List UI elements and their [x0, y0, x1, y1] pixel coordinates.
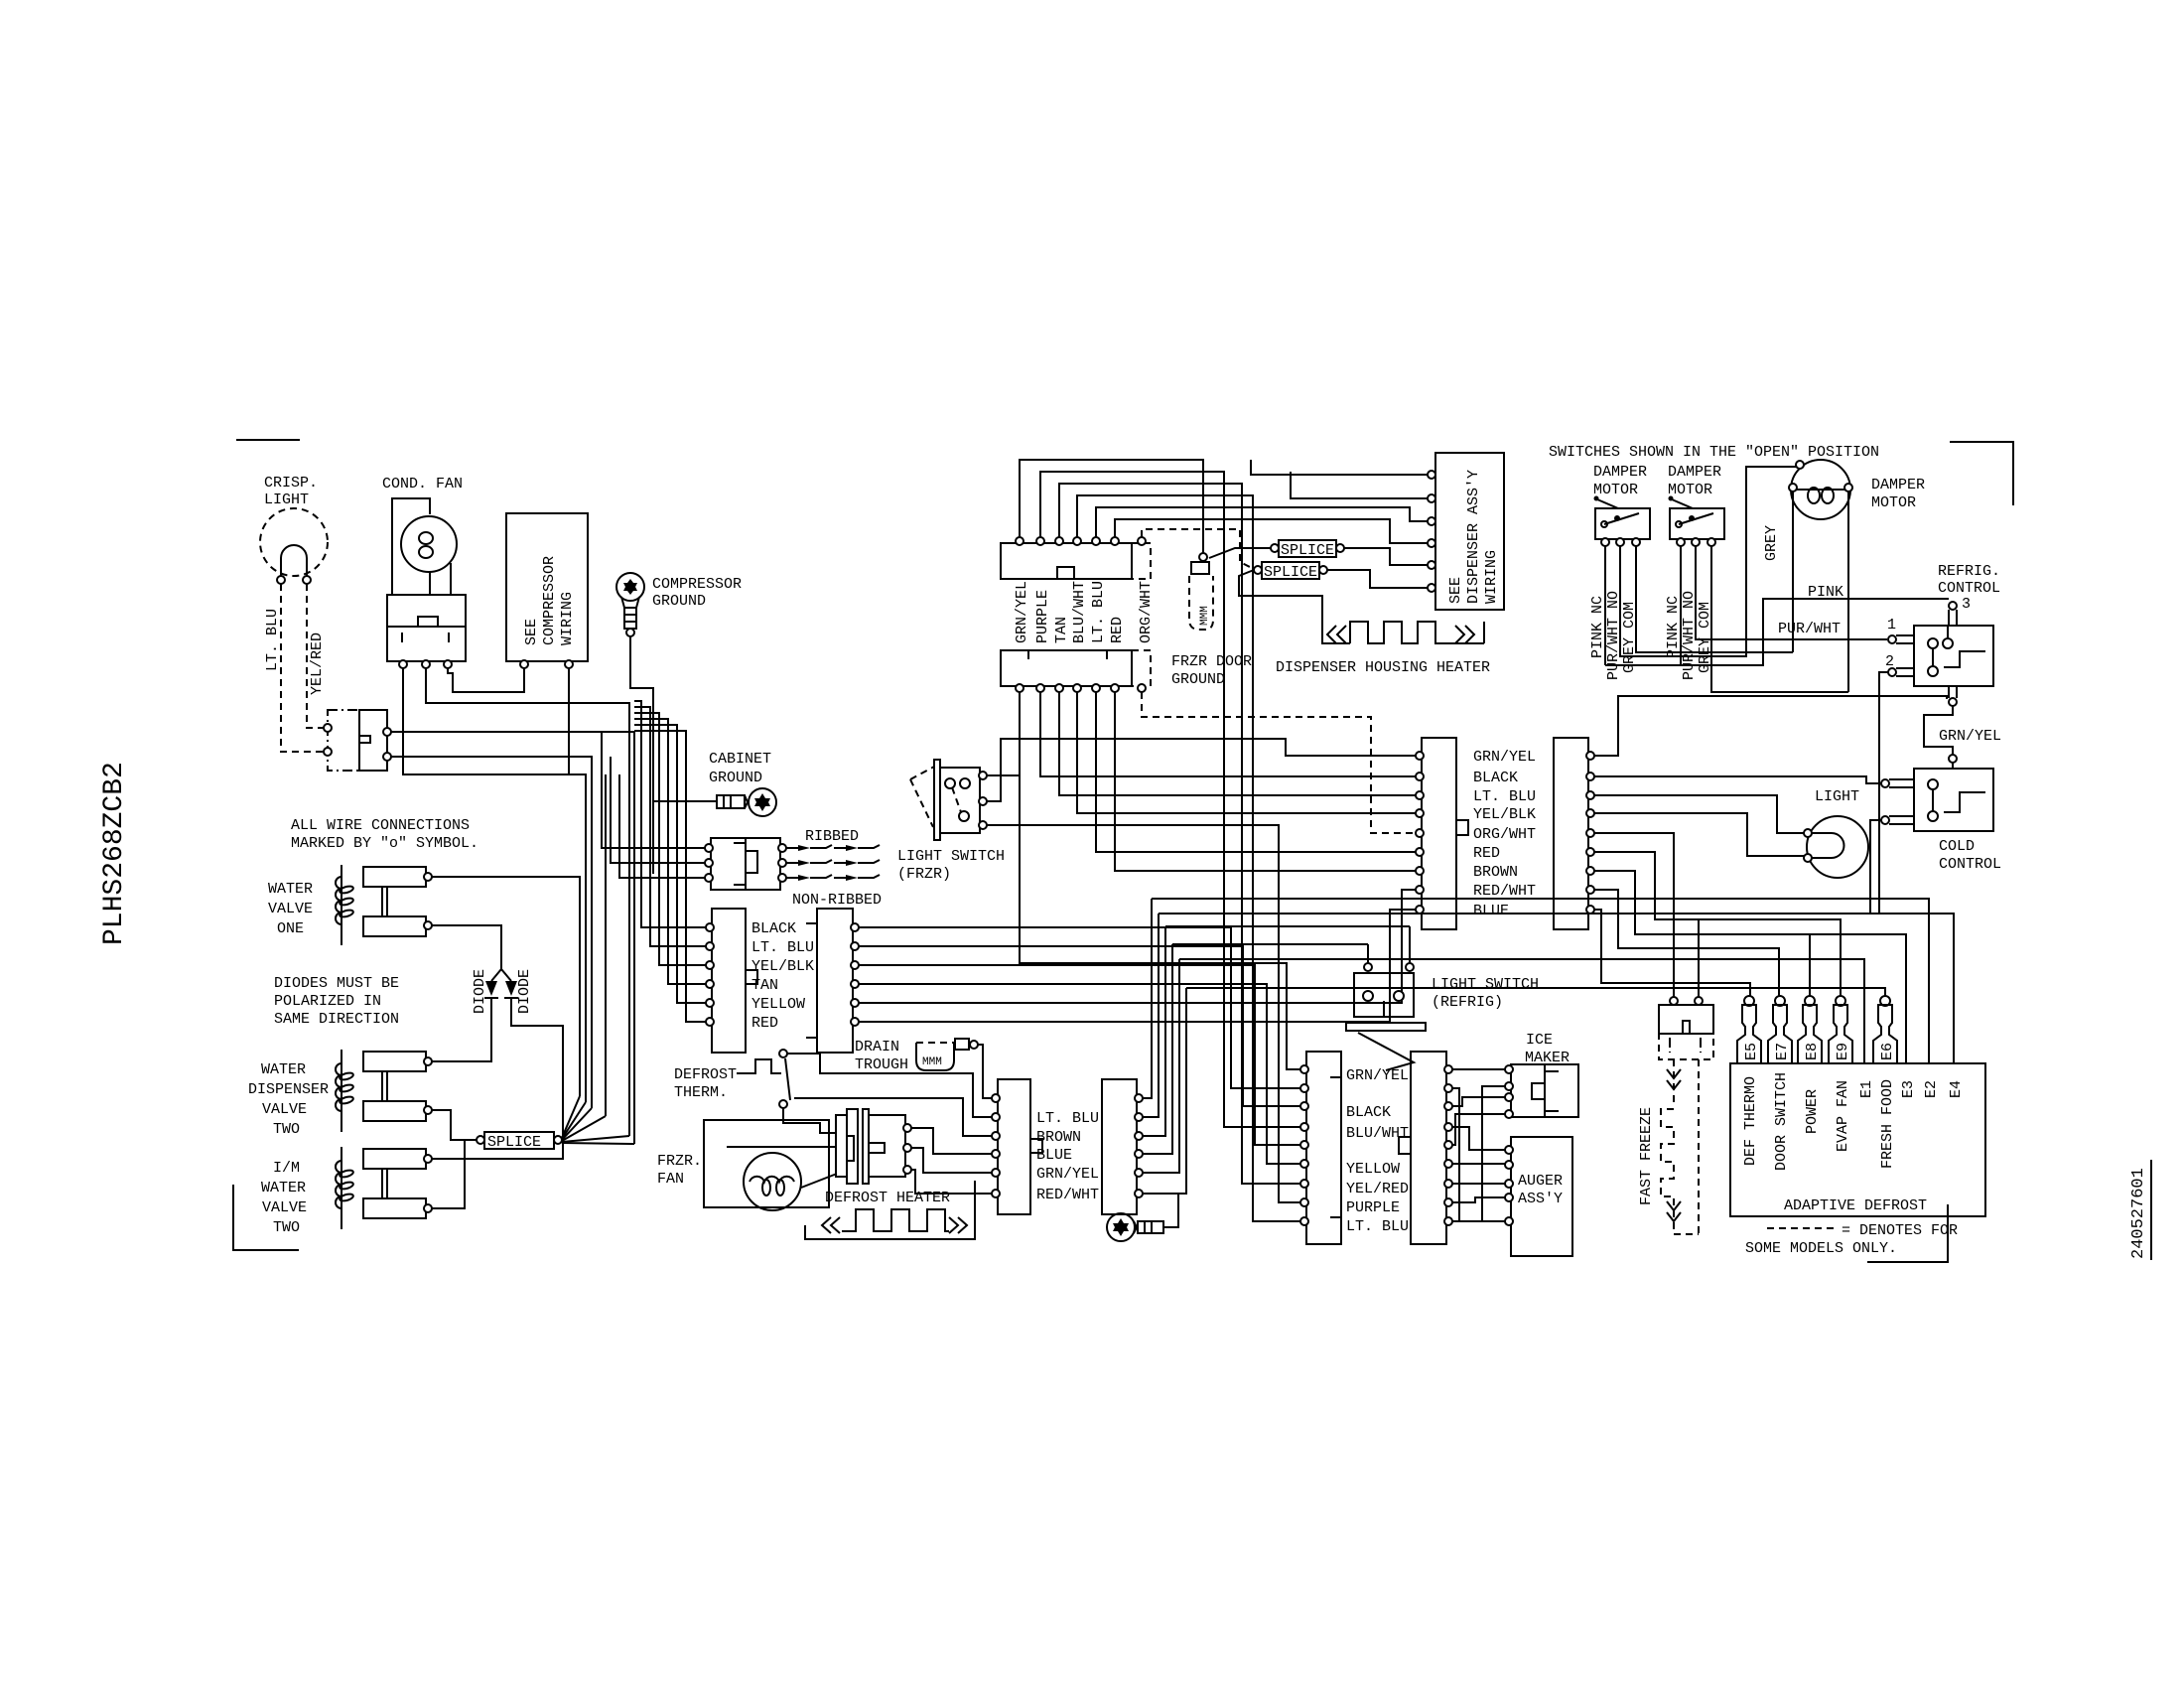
motor COND. FAN — [382, 476, 466, 661]
terminal motor left — [1789, 484, 1797, 492]
terminal valve3 bottom — [424, 1204, 432, 1212]
terminal C2-6 — [851, 1018, 859, 1026]
note ALL WIRE CONNECTIONS — [291, 817, 478, 852]
terminal splice2 left — [1254, 566, 1262, 574]
wire motor left grey drop — [1792, 492, 1794, 652]
terminal sw2 grey — [1707, 538, 1715, 546]
switch LIGHT SWITCH (FRZR) — [897, 760, 1005, 883]
svg-text:E8: E8 — [1804, 1043, 1821, 1060]
wire FU-5 riser to dispenser — [1096, 507, 1430, 537]
terminal IM-2 — [1505, 1082, 1513, 1090]
wire splice fan-in — [562, 1096, 634, 1144]
svg-text:DAMPER: DAMPER — [1871, 477, 1925, 493]
terminal H2-6 — [1586, 848, 1594, 856]
svg-text:RED: RED — [1473, 845, 1500, 862]
svg-text:E3: E3 — [1900, 1080, 1917, 1098]
connector D1 defrost left half — [998, 1079, 1042, 1214]
ground FRZR DOOR GROUND — [1171, 553, 1252, 688]
terminal IM-3 — [1505, 1093, 1513, 1101]
terminal LSF-1 — [979, 772, 987, 779]
svg-text:ALL WIRE CONNECTIONS: ALL WIRE CONNECTIONS — [291, 817, 470, 834]
svg-text:TWO: TWO — [273, 1121, 300, 1138]
svg-text:GROUND: GROUND — [709, 770, 762, 786]
svg-text:MMM: MMM — [922, 1056, 942, 1068]
wire H2-9 BLUE staircase to E5 — [1594, 910, 1750, 996]
svg-text:ORG/WHT: ORG/WHT — [1473, 826, 1536, 843]
svg-text:GRN/YEL: GRN/YEL — [1939, 728, 2001, 745]
svg-text:YEL/BLK: YEL/BLK — [751, 958, 814, 975]
terminal FU-3 — [1055, 537, 1063, 545]
terminal valve2 bottom — [424, 1106, 432, 1114]
svg-text:ORG/WHT: ORG/WHT — [1138, 581, 1155, 643]
wire G2-5 to IM-4 — [1452, 1114, 1505, 1145]
terminal FL-5 — [1092, 684, 1100, 692]
wire channel to E2 — [1152, 899, 1929, 1063]
svg-text:THERM.: THERM. — [674, 1084, 728, 1101]
wire FL-3 drop — [1059, 692, 1416, 795]
svg-text:YEL/BLK: YEL/BLK — [1473, 806, 1536, 823]
svg-text:DOOR SWITCH: DOOR SWITCH — [1773, 1072, 1790, 1171]
wire pigtail leads row3 — [786, 875, 880, 881]
node drawing number 240527601 — [2129, 1160, 2151, 1260]
terminal refrig 1 — [1887, 617, 1914, 643]
wire stub to ribbed L2 — [611, 757, 705, 863]
wire G2-2 to AUG-5 — [1452, 1088, 1505, 1221]
svg-text:LT. BLU: LT. BLU — [1473, 788, 1536, 805]
auger AUGER ASS'Y — [1511, 1137, 1572, 1256]
connector D2 defrost right half — [1102, 1079, 1137, 1214]
terminal G2-2 — [1444, 1084, 1452, 1092]
terminal FU-1 — [1016, 537, 1024, 545]
wire FU-1 riser to frzr door ground — [1020, 460, 1203, 553]
terminal cold 2 — [1881, 816, 1914, 824]
svg-text:DISPENSER HOUSING HEATER: DISPENSER HOUSING HEATER — [1276, 659, 1490, 676]
wire heater t1 to connector — [911, 1128, 992, 1154]
svg-text:MOTOR: MOTOR — [1593, 482, 1638, 498]
svg-text:BLUE: BLUE — [1473, 903, 1509, 919]
terminal G2-7 — [1444, 1180, 1452, 1188]
svg-text:YEL/RED: YEL/RED — [1346, 1181, 1409, 1197]
terminal valve3 top — [424, 1155, 432, 1163]
wire feeders into C1 — [634, 701, 706, 1022]
wire pigtail leads row1 — [786, 845, 880, 851]
svg-text:FRZR.: FRZR. — [657, 1153, 702, 1170]
svg-text:E9: E9 — [1835, 1043, 1851, 1060]
terminal cond fan 2 — [422, 660, 430, 668]
svg-text:WIRING: WIRING — [1483, 550, 1500, 604]
wire C2-1 to F BLACK — [859, 927, 1301, 1088]
wire channel to E1 — [1179, 959, 1864, 1063]
coil WATER VALVE ONE — [268, 865, 426, 945]
terminal D1-6 — [992, 1190, 1000, 1197]
terminal splice2 right — [1319, 566, 1327, 574]
svg-text:GREY: GREY — [1763, 525, 1780, 561]
terminal C1-5 — [706, 999, 714, 1007]
svg-text:GRN/YEL: GRN/YEL — [1346, 1067, 1409, 1084]
wire C2-2 to F BLU/WHT — [859, 946, 1301, 1106]
wire H2-7 BROWN staircase to E8/E3 — [1594, 871, 1906, 1063]
terminal C1-1 — [706, 923, 714, 931]
svg-text:BLU/WHT: BLU/WHT — [1071, 581, 1088, 643]
wire cond fan t1 down — [403, 668, 586, 1102]
svg-text:3: 3 — [1962, 596, 1971, 613]
connector H2 right half — [1554, 738, 1588, 929]
svg-text:YELLOW: YELLOW — [1346, 1161, 1400, 1178]
terminal G1-9 — [1300, 1217, 1308, 1225]
svg-text:COLD: COLD — [1939, 838, 1975, 855]
wire FF t2 riser — [1698, 919, 1700, 997]
wire FU-4 riser long drop — [1077, 495, 1301, 1221]
wire bundle extra — [605, 774, 607, 1116]
wire C2-5 to D RED/WHT — [859, 890, 1416, 1003]
wire FL-6 drop — [1115, 692, 1416, 871]
terminal AUG-2 — [1505, 1161, 1513, 1169]
svg-text:WIRING: WIRING — [559, 592, 576, 645]
label C wire colors — [751, 920, 814, 1032]
terminal FL-7 dashed — [1138, 684, 1146, 692]
svg-text:E4: E4 — [1948, 1080, 1965, 1098]
wire sw1 purwht to motor top — [1620, 467, 1796, 656]
control REFRIG. CONTROL — [1914, 563, 2000, 706]
terminal disp-6 — [1428, 584, 1435, 592]
terminal sw1 purwht — [1616, 538, 1624, 546]
svg-text:RED/WHT: RED/WHT — [1036, 1187, 1099, 1203]
svg-text:POLARIZED IN: POLARIZED IN — [274, 993, 381, 1010]
terminal G1-3 — [1300, 1102, 1308, 1110]
terminal LSR-1 — [1364, 963, 1372, 971]
svg-text:WATER: WATER — [261, 1180, 306, 1196]
blade E5 — [1737, 996, 1761, 1063]
terminal sw2 pink — [1677, 538, 1685, 546]
terminal D2-1 — [1135, 1094, 1143, 1102]
terminal valve1 bottom — [424, 921, 432, 929]
terminal cond fan 1 — [399, 660, 407, 668]
svg-text:CRISP.: CRISP. — [264, 475, 318, 492]
wire defrost therm top to connector — [787, 1054, 992, 1117]
terminal IM-4 — [1505, 1110, 1513, 1118]
svg-text:COMPRESSOR: COMPRESSOR — [652, 576, 742, 593]
svg-text:PLHS268ZCB2: PLHS268ZCB2 — [99, 762, 130, 945]
board ADAPTIVE DEFROST — [1730, 1063, 1985, 1216]
svg-text:DAMPER: DAMPER — [1593, 464, 1647, 481]
terminal compressor box 1 — [520, 660, 528, 668]
svg-text:FAST FREEZE: FAST FREEZE — [1638, 1107, 1655, 1205]
wire dispenser t1 branch — [1251, 460, 1430, 475]
svg-text:AUGER: AUGER — [1518, 1173, 1563, 1190]
terminal splice1 right — [1336, 544, 1344, 552]
terminal cond fan 3 — [444, 660, 452, 668]
ground evap fan ground lug — [1107, 1194, 1178, 1241]
wire FU-2 riser long drop — [1040, 472, 1301, 1127]
svg-text:LIGHT: LIGHT — [1815, 788, 1859, 805]
svg-text:FAN: FAN — [657, 1171, 684, 1188]
svg-text:SAME DIRECTION: SAME DIRECTION — [274, 1011, 399, 1028]
svg-text:LT. BLU: LT. BLU — [264, 609, 281, 671]
wire sw1 pink to PINK — [1604, 546, 1606, 665]
terminal valve2 top — [424, 1057, 432, 1065]
connector FRZR door lower half — [1001, 650, 1151, 686]
note DIODES MUST BE POLARIZED — [274, 975, 399, 1028]
wire G2-3 to IM-3 — [1452, 1097, 1505, 1106]
svg-text:SOME MODELS ONLY.: SOME MODELS ONLY. — [1745, 1240, 1897, 1257]
wire defrost therm bottom to holder — [783, 1108, 836, 1133]
terminal light t2 — [1804, 854, 1812, 862]
svg-text:CONTROL: CONTROL — [1938, 580, 2000, 597]
splice SPLICE (left) — [484, 1132, 554, 1151]
wire C2-3 to F YELLOW — [859, 965, 1301, 1145]
terminal FU-5 — [1092, 537, 1100, 545]
terminal light t1 — [1804, 829, 1812, 837]
svg-text:YELLOW: YELLOW — [751, 996, 805, 1013]
terminal ribbed L3 — [705, 874, 713, 882]
wire FU-6 riser to dispenser — [1115, 519, 1430, 543]
terminal H1-8 — [1416, 886, 1424, 894]
svg-text:TROUGH: TROUGH — [855, 1056, 908, 1073]
terminal sw1 grey — [1632, 538, 1640, 546]
wire sw2 pink joins PINK — [1680, 546, 1682, 665]
svg-text:E2: E2 — [1923, 1080, 1940, 1098]
svg-text:BROWN: BROWN — [1036, 1129, 1081, 1146]
wire LSF t2 to D GRN/YEL — [987, 739, 1416, 801]
terminal D2-3 — [1135, 1132, 1143, 1140]
svg-text:RED: RED — [1109, 617, 1126, 643]
terminal H1-7 — [1416, 867, 1424, 875]
terminal G2-3 — [1444, 1102, 1452, 1110]
svg-text:E1: E1 — [1858, 1080, 1875, 1098]
svg-text:WATER: WATER — [268, 881, 313, 898]
wire FL-1 drop — [1020, 692, 1301, 1069]
connector G1 left half — [1306, 1052, 1341, 1244]
terminal C2-2 — [851, 942, 859, 950]
svg-text:SPLICE: SPLICE — [1281, 542, 1334, 559]
svg-text:MOTOR: MOTOR — [1668, 482, 1712, 498]
label harness wire colors — [1473, 749, 1536, 919]
svg-text:GRN/YEL: GRN/YEL — [1014, 581, 1030, 643]
connector ribbed/non-ribbed plug — [711, 838, 780, 890]
svg-text:FRESH FOOD: FRESH FOOD — [1879, 1079, 1896, 1169]
terminal AUG-5 — [1505, 1217, 1513, 1225]
wire YEL/RED dashed from crisp light — [307, 584, 326, 728]
terminal FL-2 — [1036, 684, 1044, 692]
svg-text:VALVE: VALVE — [268, 901, 313, 917]
svg-text:DEFROST HEATER: DEFROST HEATER — [825, 1190, 950, 1206]
svg-text:240527601: 240527601 — [2129, 1168, 2148, 1259]
terminal H2-8 — [1586, 886, 1594, 894]
svg-text:ICE: ICE — [1526, 1032, 1553, 1049]
wire LSF t1 into FL-1 drop — [987, 774, 1020, 776]
wire C2-6 to D BLUE — [859, 910, 1416, 1022]
fan FRZR. FAN — [657, 1120, 837, 1210]
svg-text:COMPRESSOR: COMPRESSOR — [541, 556, 558, 645]
wire heater t2 to connector — [911, 1148, 992, 1173]
svg-text:FRZR DOOR: FRZR DOOR — [1171, 653, 1252, 670]
label frzr door wire colors vertical — [1014, 581, 1155, 643]
terminal D1-1 — [992, 1094, 1000, 1102]
terminal AUG-1 — [1505, 1146, 1513, 1154]
svg-text:LT. BLU: LT. BLU — [751, 939, 814, 956]
svg-text:DIODE: DIODE — [516, 969, 533, 1014]
svg-text:DIODES MUST BE: DIODES MUST BE — [274, 975, 399, 992]
svg-text:MMM: MMM — [1199, 606, 1211, 626]
wire D2 to valve3 top — [432, 998, 563, 1159]
terminal C2-1 — [851, 923, 859, 931]
terminal G1-2 — [1300, 1084, 1308, 1092]
terminal IM-1 — [1505, 1065, 1513, 1073]
terminal disp-5 — [1428, 561, 1435, 569]
terminal G1-1 — [1300, 1065, 1308, 1073]
svg-text:GROUND: GROUND — [1171, 671, 1225, 688]
svg-text:MARKED BY "o" SYMBOL.: MARKED BY "o" SYMBOL. — [291, 835, 478, 852]
terminal G2-6 — [1444, 1160, 1452, 1168]
svg-text:RIBBED: RIBBED — [805, 828, 859, 845]
wire motor right drop — [1847, 492, 1849, 692]
terminal C2-4 — [851, 980, 859, 988]
svg-text:= DENOTES FOR: = DENOTES FOR — [1842, 1222, 1958, 1239]
wire channel to E6 — [1186, 988, 1885, 996]
terminal H1-9 — [1416, 906, 1424, 914]
svg-text:BLUE: BLUE — [1036, 1147, 1072, 1164]
terminal cold 1 — [1881, 779, 1914, 787]
terminal sw1 pink — [1601, 538, 1609, 546]
terminal G2-8 — [1444, 1198, 1452, 1206]
coil I/M WATER VALVE TWO — [261, 1147, 426, 1236]
terminal ribbed R1 — [778, 844, 786, 852]
wire stub to ribbed L3 — [619, 774, 705, 878]
terminal LSF-2 — [979, 797, 987, 805]
wire G2-6 to AUG-2 — [1452, 1163, 1505, 1165]
wire corner mark bottom-left — [233, 1185, 299, 1250]
wire heater t3 to connector — [911, 1170, 992, 1194]
wire H2-4 to light lamp t2 — [1594, 813, 1804, 856]
switch damper motor switch 2 — [1668, 464, 1724, 539]
terminal G1-8 — [1300, 1198, 1308, 1206]
terminal ribbed R3 — [778, 874, 786, 882]
wire ORG/WHT dashed route — [1142, 529, 1252, 568]
terminal C2-5 — [851, 999, 859, 1007]
wire cold t2 drop — [1870, 820, 1881, 914]
connector G2 right half — [1411, 1052, 1446, 1244]
label defrost connector colors — [1036, 1110, 1099, 1203]
terminal disp-1 — [1428, 471, 1435, 479]
terminal D2-4 — [1135, 1150, 1143, 1158]
wire sw1 grey to motor — [1636, 546, 1793, 652]
terminal H1-2 — [1416, 773, 1424, 780]
terminal disp-4 — [1428, 539, 1435, 547]
terminal C1-4 — [706, 980, 714, 988]
terminal relay right bottom — [383, 753, 391, 761]
terminal splice1 left — [1271, 544, 1279, 552]
svg-text:E6: E6 — [1879, 1043, 1896, 1060]
terminal D2-5 — [1135, 1169, 1143, 1177]
svg-text:MOTOR: MOTOR — [1871, 494, 1916, 511]
terminal D1-3 — [992, 1132, 1000, 1140]
terminal crisp light right — [303, 576, 311, 584]
svg-text:PURPLE: PURPLE — [1034, 590, 1051, 643]
svg-text:SPLICE: SPLICE — [1264, 564, 1317, 581]
wire D1 to valve2 top — [432, 998, 491, 1061]
terminal valve1 top — [424, 873, 432, 881]
terminal relay right top — [383, 728, 391, 736]
terminal D1-2 — [992, 1113, 1000, 1121]
svg-text:LT. BLU: LT. BLU — [1090, 581, 1107, 643]
terminal compressor box 2 — [565, 660, 573, 668]
terminal AUG-3 — [1505, 1180, 1513, 1188]
svg-text:GRN/YEL: GRN/YEL — [1036, 1166, 1099, 1183]
wire LT. BLU dashed from crisp light — [264, 584, 324, 752]
svg-text:WATER: WATER — [261, 1061, 306, 1078]
wire H2-5 ORG/WHT to fast freeze — [1594, 833, 1674, 997]
wire FU-3 riser long drop — [1059, 484, 1301, 1184]
terminal H2-4 — [1586, 809, 1594, 817]
svg-text:E7: E7 — [1774, 1043, 1791, 1060]
wire splice1 left lead — [1209, 548, 1271, 558]
wire dispenser t2 branch — [1291, 472, 1430, 498]
blade E8 — [1798, 996, 1822, 1063]
terminal G1-6 — [1300, 1160, 1308, 1168]
terminal H1-1 — [1416, 752, 1424, 760]
terminal G2-9 — [1444, 1217, 1452, 1225]
terminal relay left top — [324, 724, 332, 732]
wire PUR/WHT — [1695, 638, 1887, 640]
svg-text:ADAPTIVE DEFROST: ADAPTIVE DEFROST — [1784, 1197, 1927, 1214]
wire relay bottom to bundle — [391, 757, 592, 1108]
svg-text:E5: E5 — [1743, 1043, 1760, 1060]
control COLD CONTROL — [1914, 769, 2001, 873]
terminal sw2 purwht — [1692, 538, 1700, 546]
wire compressor box t2 down — [568, 668, 570, 774]
splice SPLICE lower — [1262, 562, 1319, 581]
terminal ribbed L2 — [705, 859, 713, 867]
terminal D1-4 — [992, 1150, 1000, 1158]
svg-text:LIGHT: LIGHT — [264, 492, 309, 508]
connector C1 left half — [712, 909, 757, 1053]
blade E6 — [1873, 996, 1897, 1063]
wire H2-1 GRN/YEL up to refrig control — [1594, 696, 1947, 756]
wire compressor ground lead — [630, 636, 653, 874]
terminal heater 2 — [903, 1144, 911, 1152]
svg-text:POWER: POWER — [1804, 1089, 1821, 1134]
wire FL-2 drop — [1040, 692, 1416, 776]
terminal C1-2 — [706, 942, 714, 950]
wire corner mark top-right — [1950, 442, 2013, 505]
wire corner mark top-left — [236, 439, 300, 441]
terminal heater 1 — [903, 1124, 911, 1132]
terminal ribbed R2 — [778, 859, 786, 867]
note DENOTES FOR SOME MODELS ONLY — [1745, 1222, 1958, 1257]
wire channel to LSR t1 — [1172, 943, 1368, 945]
relay crisp light switch — [328, 710, 387, 771]
blade E7 — [1768, 996, 1792, 1063]
svg-text:PURPLE: PURPLE — [1346, 1199, 1400, 1216]
svg-text:1: 1 — [1887, 617, 1896, 633]
terminal disp-3 — [1428, 517, 1435, 525]
wire H2-3 to light lamp t1 — [1594, 795, 1804, 833]
svg-text:(REFRIG): (REFRIG) — [1432, 994, 1503, 1011]
ground CABINET GROUND lug — [653, 751, 776, 816]
svg-text:LT. BLU: LT. BLU — [1036, 1110, 1099, 1127]
wire splice2 left lead to heater — [1239, 570, 1322, 622]
svg-text:DISPENSER: DISPENSER — [248, 1081, 329, 1098]
terminal G1-5 — [1300, 1141, 1308, 1149]
box SEE DISPENSER ASS'Y WIRING — [1435, 453, 1504, 610]
terminal C2-3 — [851, 961, 859, 969]
terminal relay left bottom — [324, 748, 332, 756]
terminal splice right — [554, 1136, 562, 1144]
svg-text:PINK NC: PINK NC — [1589, 596, 1606, 658]
svg-text:BLACK: BLACK — [1473, 770, 1518, 786]
wire channel to LSR t2 — [1165, 925, 1410, 927]
terminal crisp light left — [277, 576, 285, 584]
